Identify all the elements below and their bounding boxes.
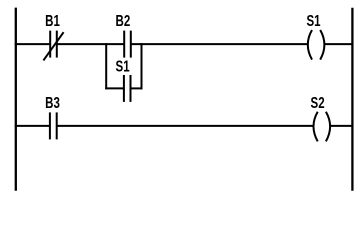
wire B2 to coil S1 xyxy=(131,43,308,45)
wire B3 to coil S2 xyxy=(57,125,314,127)
wire coil S1 to right rail xyxy=(324,43,352,45)
wire branch right vertical xyxy=(141,43,143,89)
contact B1 (normally closed) xyxy=(43,31,63,61)
wire branch left vertical xyxy=(105,43,107,89)
svg-text:S1: S1 xyxy=(116,57,130,75)
wire rung1 rail to B1 xyxy=(15,43,51,45)
svg-text:B3: B3 xyxy=(45,93,60,111)
wire branch bottom right xyxy=(131,87,143,89)
svg-text:B2: B2 xyxy=(116,11,131,29)
svg-text:S1: S1 xyxy=(306,11,320,29)
svg-text:B1: B1 xyxy=(45,11,60,29)
coil S1 xyxy=(308,30,325,60)
right power rail xyxy=(351,8,353,191)
contact B3 (normally open) xyxy=(50,112,57,139)
contact S1 (normally open, seal-in branch) xyxy=(124,75,131,102)
wire coil S2 to right rail xyxy=(330,125,353,127)
left power rail xyxy=(15,8,17,191)
wire B1 to B2 xyxy=(57,43,124,45)
coil S2 xyxy=(314,112,331,142)
wire branch bottom left xyxy=(105,87,124,89)
contact B2 (normally open) xyxy=(124,31,131,58)
svg-text:S2: S2 xyxy=(311,93,325,111)
wire rung2 rail to B3 xyxy=(15,125,50,127)
